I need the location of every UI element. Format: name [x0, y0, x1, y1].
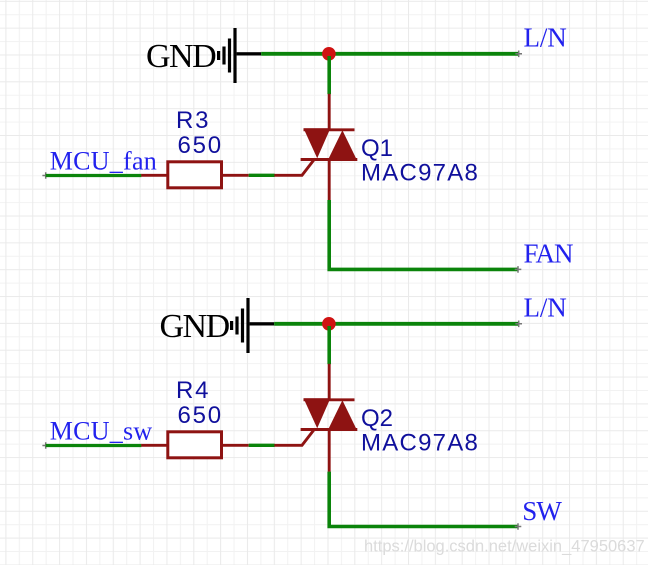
svg-text:MCU_fan: MCU_fan [50, 146, 157, 175]
wire: Q1 MT1 to FAN rail [329, 200, 518, 269]
wire: junction to Q2 MT2 [327, 326, 331, 364]
svg-text:L/N: L/N [524, 23, 567, 53]
triac Q2 [274, 364, 357, 472]
wire end marker (MCU_fan) [42, 172, 49, 179]
svg-text:SW: SW [522, 496, 562, 526]
junction: bottom rail to Q2 [322, 317, 336, 331]
svg-text:MAC97A8: MAC97A8 [361, 429, 479, 456]
wire: top L/N rail [261, 52, 519, 56]
svg-text:R4: R4 [176, 377, 210, 404]
svg-text:https://blog.csdn.net/weixin_4: https://blog.csdn.net/weixin_47950637 [364, 538, 645, 556]
svg-text:MCU_sw: MCU_sw [50, 416, 153, 445]
wire: MCU_fan input to R3 [46, 174, 142, 177]
wire end marker (top L/N) [515, 51, 522, 58]
svg-text:R3: R3 [176, 107, 210, 134]
wire: MCU_sw input to R4 [46, 444, 142, 447]
resistor R4 [141, 432, 249, 458]
wire end marker (bottom L/N) [515, 321, 522, 328]
ground symbol GND (bottom circuit) [160, 298, 275, 353]
svg-text:Q1: Q1 [361, 135, 393, 162]
svg-text:GND: GND [160, 308, 230, 345]
svg-text:650: 650 [178, 132, 223, 159]
wire: R3 to Q1 gate [249, 174, 275, 177]
resistor R3 [141, 162, 249, 188]
junction: top rail to Q1 [322, 47, 336, 61]
wire: Q2 MT1 to SW rail [329, 472, 518, 527]
svg-text:650: 650 [178, 402, 223, 429]
svg-text:Q2: Q2 [361, 405, 393, 432]
svg-text:L/N: L/N [524, 293, 567, 323]
wire end marker (MCU_sw) [42, 442, 49, 449]
wire: bottom L/N rail [274, 322, 519, 326]
triac Q1 [274, 94, 357, 200]
svg-text:FAN: FAN [524, 238, 574, 268]
svg-text:MAC97A8: MAC97A8 [361, 159, 479, 186]
ground symbol GND (top circuit) [146, 28, 261, 83]
wire end marker (SW) [515, 523, 522, 530]
svg-text:GND: GND [146, 38, 216, 75]
wire end marker (FAN) [515, 266, 522, 273]
wire: junction to Q1 MT2 [327, 56, 331, 94]
wire: R4 to Q2 gate [249, 444, 275, 447]
